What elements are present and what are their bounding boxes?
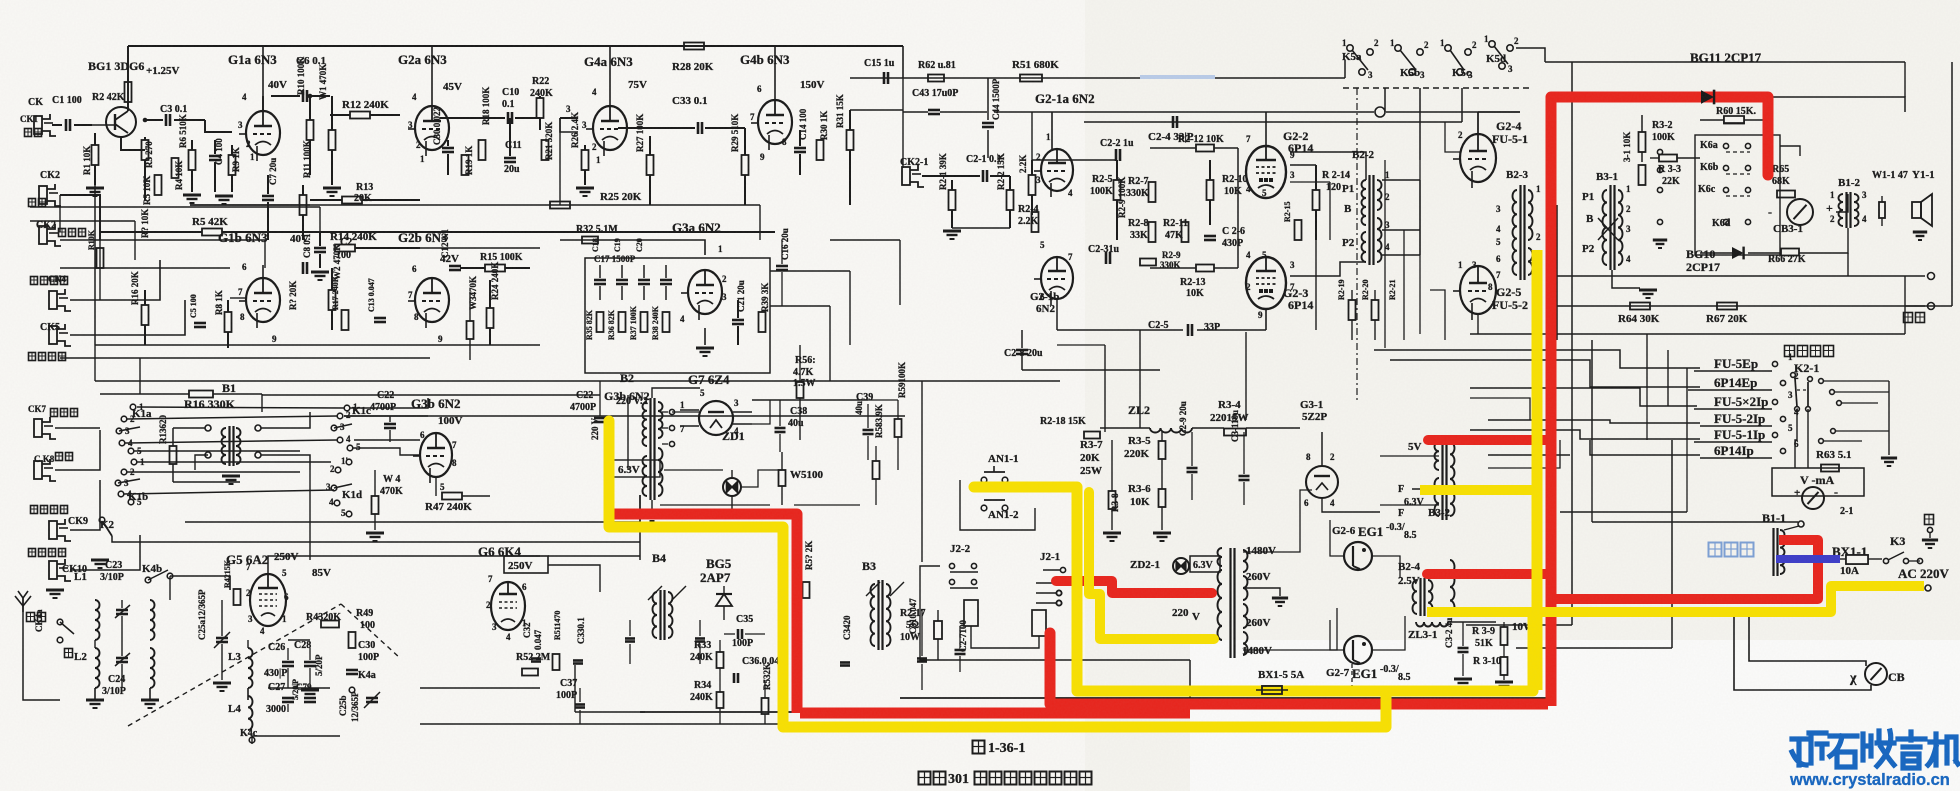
resistor R10 100K bbox=[307, 120, 314, 140]
bottom black wire 2 bbox=[900, 697, 1548, 699]
wire g24 top bbox=[1477, 112, 1479, 134]
wire zd1 to w5 bbox=[741, 470, 782, 487]
wire selector to meter bbox=[1795, 409, 1797, 468]
wire G5 plate up bbox=[268, 556, 540, 574]
wire fuse v bbox=[782, 570, 784, 595]
wire G1b plate bbox=[262, 265, 264, 278]
wire x1420 b22 bbox=[1419, 180, 1421, 255]
resistor R2-15 bbox=[1295, 220, 1302, 240]
wire plate G2a bbox=[431, 46, 433, 106]
resistor R2-8 33K bbox=[1149, 222, 1156, 242]
wire red top feedback bbox=[1551, 97, 1768, 189]
resistor R2-4 2.2K bbox=[1032, 212, 1039, 232]
wire mid power verts bbox=[1104, 345, 1106, 432]
ground G3a bbox=[696, 347, 714, 350]
wire c27 row bbox=[268, 687, 330, 689]
capacitor C8 0.1 bbox=[302, 262, 305, 274]
vert line x1557 bbox=[1556, 205, 1558, 340]
bottom black wire 1 bbox=[640, 711, 1190, 713]
resistor R2-10 10K bbox=[1207, 180, 1214, 200]
resistor R12 240K bbox=[350, 112, 370, 119]
wire vert grid G1a bbox=[205, 120, 232, 132]
resistor R26 2.4K bbox=[582, 150, 589, 170]
resistor R27 100K bbox=[647, 155, 654, 175]
label tiaoyaqi blue bbox=[1709, 543, 1722, 557]
resistor R2-5 100K bbox=[1114, 180, 1121, 200]
resistor R42 15K bbox=[234, 589, 241, 605]
tube G3b bbox=[420, 433, 452, 477]
gang dashed line K5 bbox=[1343, 87, 1530, 89]
cap C41 bbox=[625, 637, 635, 640]
wire top right ext bbox=[1700, 61, 1905, 63]
wires K6 to meter bbox=[1767, 120, 1769, 135]
resistor R60 over red bbox=[1724, 116, 1744, 123]
wire k4b right bbox=[170, 576, 230, 590]
wire blue mains bbox=[1776, 555, 1840, 563]
wire bottom k4c bbox=[251, 736, 253, 744]
vert line x1592 bbox=[1591, 340, 1593, 440]
wire 6P14 col bbox=[1237, 148, 1239, 268]
resistor R2-2 15K bbox=[1007, 190, 1014, 210]
wire left col vert bbox=[94, 185, 96, 345]
power transformer main bbox=[1229, 548, 1231, 658]
resistor R16 330K bbox=[189, 391, 213, 398]
capacitor C3 bbox=[165, 114, 168, 126]
transformer B3-2b right bbox=[1450, 560, 1455, 614]
mesh left ext bbox=[1374, 349, 1482, 351]
wire BG10 row bbox=[1700, 252, 1732, 254]
wire left rows bbox=[60, 267, 230, 269]
wire g4b right bbox=[850, 109, 903, 111]
resistor R56 bbox=[797, 382, 804, 398]
resistor R64 30K bbox=[1630, 303, 1650, 310]
ground jack area bbox=[91, 559, 109, 562]
meter vma circle bbox=[1802, 487, 1824, 509]
wire collector BG1 bbox=[127, 46, 129, 111]
wire mid 380 bbox=[95, 380, 1060, 382]
node bus1 bbox=[143, 118, 148, 123]
wire heater 5Z2P bbox=[1322, 498, 1380, 512]
relay coil J2-2 box bbox=[964, 600, 978, 626]
resistor R30 1K bbox=[817, 140, 824, 160]
vert x262 down bbox=[261, 394, 263, 412]
dashed EG1 down bbox=[1351, 664, 1353, 688]
resistor R39 3K bbox=[759, 312, 766, 332]
tube G2-1a bbox=[1041, 149, 1073, 191]
jack CK2 bbox=[39, 186, 47, 204]
wires K1a to K1c rows bbox=[137, 407, 344, 408]
wire red G7 row bbox=[612, 514, 797, 713]
capacitor C11 bbox=[504, 157, 516, 160]
tube G2-1b bbox=[1041, 257, 1073, 299]
ground c25a2 bbox=[301, 689, 319, 692]
wire mid-bottom v x640 bbox=[639, 495, 641, 560]
caption figure number bbox=[973, 741, 985, 754]
wire AN to left bbox=[920, 610, 1000, 660]
resistor Rs 42K bbox=[202, 229, 222, 236]
right edge vertical bbox=[1951, 62, 1953, 306]
capacitor C10 bbox=[507, 112, 510, 124]
wire G2-2 plate up bbox=[1265, 112, 1267, 146]
jack CK8 bbox=[34, 461, 42, 479]
wire g7 to b2 bbox=[672, 411, 699, 413]
jack CK10 bbox=[49, 561, 57, 579]
jack CK7 bbox=[34, 419, 42, 437]
dashed gang line bbox=[128, 604, 341, 726]
wire red B3-2 to vertical bbox=[1428, 435, 1549, 445]
vert line x1572 bbox=[1571, 62, 1573, 440]
K5 wires down bbox=[1384, 88, 1386, 112]
capacitor C2-31u bbox=[1105, 252, 1108, 264]
resistor R13 620 bbox=[170, 446, 177, 464]
wire G3a plate up bbox=[660, 240, 705, 255]
relay coil J2-1 box bbox=[1032, 610, 1046, 636]
wire 6P14 plates to B2-2 bbox=[1290, 152, 1366, 180]
capacitor C30 0.022 bbox=[442, 147, 454, 150]
vert x560 bbox=[559, 118, 561, 205]
vert lines right mid bbox=[1646, 334, 1648, 388]
long wire K2 row bbox=[112, 536, 640, 542]
wires R3 cluster bbox=[1111, 440, 1113, 491]
mesh extra rows bbox=[1488, 440, 1560, 468]
cross X in B3-1 bbox=[1598, 218, 1618, 240]
tube heater circle top bbox=[1321, 481, 1323, 483]
wire red J2-1 to 220V bbox=[1056, 581, 1212, 593]
wire FU-5 plates bbox=[1477, 112, 1479, 134]
wire meter right bbox=[1836, 194, 1848, 212]
long feedback 416 bbox=[344, 415, 905, 417]
resistor R19 1K bbox=[462, 155, 469, 175]
right rows to B1-1 bbox=[1560, 511, 1687, 513]
wire LC links bbox=[121, 600, 123, 608]
rect tube G3-1b bbox=[1325, 479, 1327, 481]
wire b22 right down bbox=[1403, 230, 1405, 340]
resistor R67 20K bbox=[1717, 303, 1737, 310]
resistor R13 20K bbox=[342, 197, 362, 204]
wire AN block bbox=[960, 480, 1035, 530]
right contact bank bbox=[1819, 379, 1824, 384]
wire G4b plate bbox=[774, 46, 776, 100]
jack CK9 bbox=[49, 521, 57, 539]
resistor R16 20K left bbox=[142, 305, 149, 325]
capacitor C2 100 bbox=[314, 247, 326, 250]
speaker Y1-1 bbox=[1912, 202, 1921, 218]
V-mA meter loop bbox=[1772, 468, 1864, 496]
vert x575 bottom bbox=[574, 665, 576, 712]
label zhongbo bbox=[27, 613, 35, 622]
wire from K5d right bbox=[1516, 48, 1545, 62]
wire emitter chain bbox=[121, 137, 145, 150]
fuse BX1-5 over yellow bbox=[1262, 686, 1282, 694]
resistor R22 240K bbox=[537, 98, 544, 118]
cap C16 bbox=[776, 265, 788, 268]
resistor R62 bbox=[928, 75, 944, 82]
wire EG1 links bbox=[1372, 556, 1400, 578]
transformer B3 coils bbox=[877, 580, 879, 650]
jack CK2b pickup bbox=[39, 226, 47, 244]
small coil 6.3V bbox=[1218, 548, 1222, 566]
resistor R2-14 120 bbox=[1313, 190, 1320, 210]
wire 6P14 screens bbox=[1290, 181, 1330, 183]
capacitor C2-1 0.1 bbox=[982, 170, 985, 182]
tube G4b 6N3 bbox=[758, 100, 792, 144]
capacitor C6 bbox=[302, 90, 305, 102]
box 6.3V bbox=[1190, 556, 1220, 572]
resistor R8 10K bbox=[97, 248, 104, 268]
capacitor C14 100 bbox=[794, 147, 806, 150]
wire G4a plate bbox=[609, 46, 611, 106]
wire c39 bottom row bbox=[752, 400, 770, 424]
resistor R9 1K bbox=[229, 155, 236, 175]
wire ant to coils bbox=[23, 612, 60, 700]
ground B1 bbox=[222, 475, 240, 478]
wire row 205 bbox=[190, 204, 310, 206]
resistor R43 20K bbox=[321, 621, 339, 628]
wire yellow 691 line bbox=[1077, 608, 1533, 691]
wire plate G1a up bbox=[262, 96, 264, 111]
wire ZL2 row bbox=[1100, 427, 1150, 429]
wire to G4a grid bbox=[560, 117, 578, 119]
resistor R2-9 330K bbox=[1140, 259, 1156, 266]
tube G2a 6N3 bbox=[415, 106, 449, 150]
wire b2 gnd bbox=[651, 500, 653, 510]
resistor R3-3 22K bbox=[1659, 155, 1677, 162]
caps C17-C20 cluster bbox=[594, 279, 606, 282]
resistor R21 520K bbox=[542, 140, 549, 160]
wire x1848 down bbox=[1847, 253, 1849, 276]
wires J2 area bbox=[920, 566, 940, 610]
wires output top right bbox=[1768, 97, 1905, 112]
wires zl3 bbox=[1448, 621, 1496, 623]
resistors R2-19 R2-20 bbox=[1349, 300, 1356, 320]
wire c38 top row bbox=[752, 399, 868, 401]
tube G2-5 FU-5-2 bbox=[1460, 266, 1496, 314]
watermark logo bbox=[1792, 733, 1827, 765]
vert K5b ext bbox=[1384, 160, 1386, 348]
resistor R29 510K bbox=[742, 155, 749, 175]
resistor R17 240K bbox=[342, 310, 349, 330]
wire mid 660 bbox=[1000, 659, 1190, 661]
wire l3 top bbox=[247, 640, 249, 648]
capacitor C15 1u bbox=[883, 72, 886, 84]
wire mid col x1032 bbox=[1031, 112, 1033, 160]
ground R1 bbox=[86, 187, 104, 190]
capacitor C43 1700P bbox=[928, 109, 940, 112]
wire 395 ext bbox=[262, 394, 600, 396]
wire yellow main vertical bbox=[1532, 250, 1543, 690]
diode BG11 over red bbox=[1701, 90, 1714, 104]
wire red B1-1 hook bbox=[1556, 540, 1818, 599]
vert wire x1889 bbox=[1888, 381, 1890, 455]
wire bottom mid rail bbox=[420, 687, 540, 689]
wire right mid col bbox=[830, 239, 900, 241]
wire EG1 grids bbox=[1330, 520, 1344, 556]
capacitor C13 0.047 bbox=[374, 317, 386, 320]
wire G2-3 bottom bbox=[1265, 309, 1267, 330]
label shuchu bbox=[1904, 313, 1913, 323]
resistor R2-12 10K bbox=[1196, 145, 1214, 152]
wires 6Z4 bbox=[680, 409, 699, 411]
wire plate G2-1a up bbox=[1051, 112, 1053, 150]
tube G2-4 FU-5-1 bbox=[1460, 134, 1496, 182]
right col verticals bbox=[1571, 440, 1573, 625]
resistor R6 510K bbox=[189, 150, 196, 170]
wire x952 col bbox=[952, 227, 1010, 229]
capacitor C2-2 1u bbox=[1115, 149, 1118, 161]
capacitor C2-8 20u bbox=[1016, 349, 1028, 352]
terminal AC bbox=[1925, 585, 1931, 591]
vert x903b bbox=[902, 78, 904, 168]
resistor R60 15K bbox=[1724, 117, 1744, 124]
wire 5Z2P top bbox=[1321, 432, 1323, 466]
wire G6 rail bbox=[548, 565, 600, 592]
capacitor C2-5 33P bbox=[1187, 324, 1190, 336]
resistor R2-13 10K bbox=[1196, 265, 1214, 272]
vert x760 bbox=[759, 205, 761, 240]
wire k1c feeds bbox=[350, 398, 428, 408]
scan noise overlay bbox=[0, 0, 1, 1]
label R14 240K bbox=[335, 245, 355, 252]
selector K2-1 contacts bbox=[1795, 378, 1797, 407]
long wire y556b bbox=[548, 555, 640, 557]
resistor R28 on bus bbox=[684, 43, 704, 50]
dash-dot vertical K5a bbox=[1356, 88, 1358, 400]
wires B2-2 to right bbox=[1382, 179, 1420, 181]
capacitor C33 0.1 bbox=[697, 122, 700, 134]
resistor R15 100K bbox=[485, 265, 505, 272]
long wire y122 bbox=[1084, 121, 1462, 123]
resistor R3 bbox=[142, 140, 149, 160]
resistor R2-1 39K bbox=[949, 190, 956, 210]
right edge vert2 bbox=[1904, 276, 1906, 334]
wire k4 mesh bbox=[169, 576, 171, 600]
wire R14 ext bbox=[355, 247, 540, 249]
resistor R31 15K bbox=[847, 130, 854, 150]
wire yellow F heater bbox=[1420, 485, 1535, 495]
blue smudge on wire bbox=[1140, 75, 1215, 79]
wires right of K1c bbox=[354, 439, 420, 441]
tube G4a 6N3 bbox=[593, 106, 627, 150]
wire yellow AN second strand bbox=[1089, 492, 1214, 639]
resistor R1 bbox=[92, 145, 99, 165]
wire g25 bottom bbox=[1477, 314, 1479, 334]
wire red B2-4 220V bbox=[1427, 569, 1549, 579]
wire red bottom long bbox=[800, 708, 1190, 719]
wire yellow 612 line bbox=[1427, 586, 1924, 612]
label 6.3V B2 bbox=[612, 460, 660, 477]
pot W1 470K bbox=[329, 130, 336, 150]
CB feed lines bbox=[1466, 624, 1572, 626]
long wire row 358 bbox=[60, 357, 430, 359]
resistor R2 bbox=[125, 82, 132, 102]
wire red bottom right bbox=[1050, 699, 1548, 710]
tube G2-3 6P14 bbox=[1246, 257, 1286, 309]
resistor R47 240K bbox=[442, 493, 462, 500]
wire yellow AN bbox=[974, 487, 1077, 691]
wire CK2 to grid bbox=[60, 195, 100, 240]
ground terminal bbox=[1927, 527, 1932, 532]
vert x922 long bbox=[921, 381, 923, 562]
long wire row 345 bbox=[95, 344, 540, 346]
wire row 240 bbox=[560, 239, 660, 241]
antenna bbox=[22, 598, 24, 612]
label di ground bbox=[1925, 515, 1934, 525]
wire zd1 row black bbox=[664, 469, 723, 471]
wires jacks to K1 bbox=[55, 427, 100, 429]
box around K6 bbox=[1695, 135, 1780, 255]
wire top bus bbox=[128, 45, 903, 47]
resistor R2-7 330K bbox=[1149, 182, 1156, 202]
resistor R8b 1K bbox=[225, 312, 232, 332]
pot W2 470K bbox=[329, 290, 336, 310]
resistor R4 bbox=[172, 158, 179, 178]
capacitor C21 20u bbox=[732, 319, 744, 322]
wire y394 bbox=[100, 393, 189, 395]
wire yellow left vertical bbox=[609, 421, 1386, 727]
ground coils bbox=[86, 699, 104, 702]
resistors R35 R36 R37 R38 row bbox=[597, 312, 604, 332]
node R10 bbox=[308, 94, 313, 99]
wire G3a cathode bbox=[704, 328, 706, 345]
resistor R3-2 100K bbox=[1639, 132, 1646, 152]
transistor BG1 Q1 bbox=[106, 107, 136, 137]
resistor R2-3 2.2K bbox=[1029, 175, 1036, 195]
resistor W1-1 bbox=[1879, 202, 1885, 218]
capacitor C2-4 33P bbox=[1172, 116, 1175, 128]
wire left col bbox=[70, 260, 160, 300]
wire mid power horiz bbox=[1022, 369, 1160, 371]
tube G1a 6N3 bbox=[246, 111, 280, 155]
wire G2-1b col bbox=[1056, 300, 1058, 330]
resistor R51 680K bbox=[1020, 75, 1042, 82]
wires B1 right bbox=[261, 412, 310, 428]
wire w5 row black bbox=[660, 504, 770, 506]
wire r56 col bbox=[799, 345, 801, 382]
wire mid power verts2 bbox=[1245, 332, 1247, 420]
wires K1b to K1d rows bbox=[137, 461, 331, 463]
capacitor C1 bbox=[65, 119, 68, 131]
wire red J2 vertical bbox=[1045, 633, 1056, 704]
capacitor C5b 100 bbox=[194, 322, 206, 325]
resistor R66 27K bbox=[1781, 249, 1799, 256]
wire red main vertical bbox=[1546, 180, 1557, 706]
terminals left col K6 bbox=[1657, 149, 1662, 154]
bottom vert x1190 bbox=[1189, 660, 1191, 699]
tube G1b 6N3 bbox=[246, 278, 280, 322]
fuse BX1-1 over blue bbox=[1846, 555, 1868, 564]
wire CK2 lower bbox=[30, 220, 135, 222]
jack CK2-1 bbox=[902, 167, 910, 185]
coil T1 pair bbox=[150, 600, 155, 640]
vert x312 long bbox=[309, 470, 311, 560]
resistor R2-11 47K bbox=[1182, 222, 1189, 242]
capacitor C7 20u bbox=[262, 195, 274, 198]
wires CB bbox=[1734, 612, 1871, 690]
tube G2-2 6P14 bbox=[1246, 146, 1286, 198]
capacitor C4 bbox=[209, 155, 221, 158]
cap C40 bbox=[695, 637, 705, 640]
long right wires bbox=[1557, 275, 1925, 277]
capacitor C2-6 430P bbox=[1204, 235, 1216, 238]
meter CB3-1 bbox=[1787, 199, 1813, 225]
wire B2 top bbox=[652, 388, 700, 398]
wire 381-395 join bbox=[599, 381, 601, 416]
wire HT taps to 5Z2P bbox=[1243, 490, 1312, 552]
caption title bbox=[919, 772, 931, 785]
wire fu5 grid bbox=[1445, 122, 1460, 152]
wire center tap bbox=[1243, 588, 1280, 596]
wire grid G4a bbox=[560, 118, 578, 132]
